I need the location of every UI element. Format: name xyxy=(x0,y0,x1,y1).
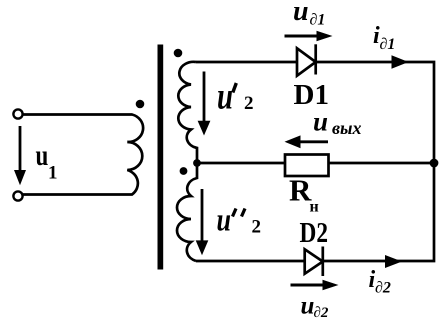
svg-text:u: u xyxy=(301,293,315,320)
svg-text:∂1: ∂1 xyxy=(380,36,396,53)
svg-text:1: 1 xyxy=(48,163,58,184)
svg-text:u: u xyxy=(217,202,232,238)
svg-text:2: 2 xyxy=(252,216,262,237)
svg-text:D2: D2 xyxy=(300,217,329,249)
svg-text:∂1: ∂1 xyxy=(310,12,326,29)
svg-text:u: u xyxy=(293,0,309,27)
svg-text:вых: вых xyxy=(332,118,362,138)
svg-text:u: u xyxy=(36,139,49,172)
svg-text:н: н xyxy=(310,199,319,216)
svg-text:2: 2 xyxy=(244,93,254,114)
svg-text:∂2: ∂2 xyxy=(314,305,329,321)
svg-text:∂2: ∂2 xyxy=(375,280,391,297)
svg-text:u: u xyxy=(217,75,233,117)
svg-text:u: u xyxy=(313,106,328,136)
